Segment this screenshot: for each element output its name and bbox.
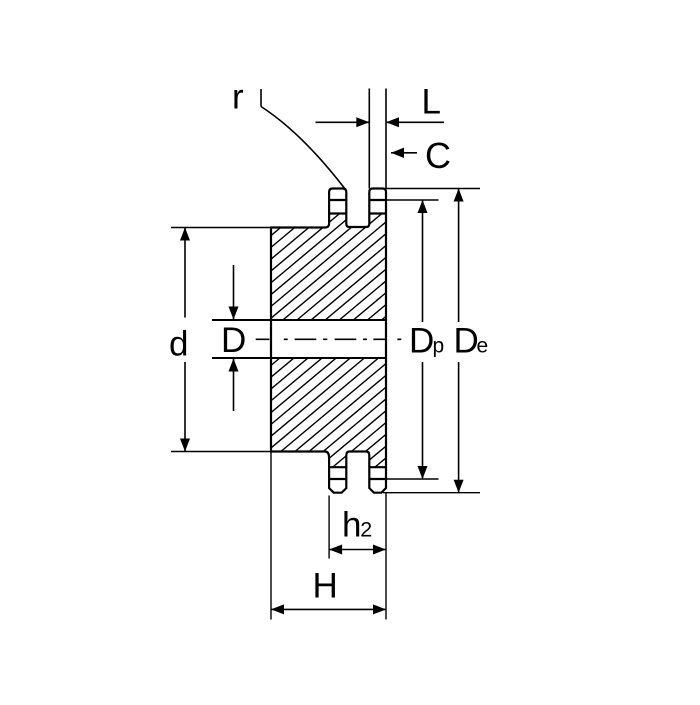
top root-circle line across teeth	[329, 212, 386, 214]
dimension h2 line	[329, 545, 386, 555]
bottom root-circle line across teeth	[329, 466, 386, 468]
dimension D arrows	[229, 265, 239, 411]
svg-text:D: D	[221, 321, 246, 360]
svg-text:H: H	[313, 567, 338, 606]
dimension Dp line	[418, 200, 428, 479]
dimension De line	[454, 189, 464, 493]
extension line above left tooth face	[368, 89, 370, 189]
extension line above right tooth face	[385, 89, 387, 189]
d top extension line	[171, 227, 271, 229]
svg-text:p: p	[433, 335, 445, 358]
dimension H line	[271, 604, 386, 614]
d bottom extension line	[171, 451, 271, 453]
right extension line below body	[385, 493, 387, 620]
svg-text:2: 2	[360, 518, 372, 542]
leader tick for r	[260, 89, 262, 107]
dimension d line	[180, 228, 190, 452]
Dp bottom extension line	[386, 478, 439, 480]
svg-text:L: L	[422, 83, 441, 122]
top pitch-circle line across teeth	[329, 199, 386, 201]
bore top line	[212, 319, 386, 321]
De top extension line	[386, 188, 480, 190]
svg-text:h: h	[342, 506, 361, 545]
dimension L left line	[316, 117, 370, 127]
bottom pitch-circle line across teeth	[329, 478, 386, 480]
dimension L right line	[386, 117, 444, 127]
Dp top extension line	[386, 199, 439, 201]
leader curve for r	[261, 107, 346, 190]
svg-text:D: D	[409, 322, 434, 361]
sprocket body outline	[271, 189, 386, 493]
H left extension line	[270, 452, 272, 620]
svg-text:d: d	[169, 325, 188, 364]
svg-text:r: r	[232, 78, 244, 117]
dimension C arrow	[391, 148, 417, 158]
h2 left extension line	[328, 496, 330, 559]
svg-text:D: D	[454, 322, 479, 361]
svg-text:e: e	[477, 335, 489, 358]
hatched section areas of sprocket body	[0, 185, 700, 496]
center line (dash-dot)	[256, 338, 402, 340]
bore bottom line	[212, 357, 386, 359]
De bottom extension line	[383, 492, 480, 494]
svg-text:C: C	[425, 135, 451, 176]
